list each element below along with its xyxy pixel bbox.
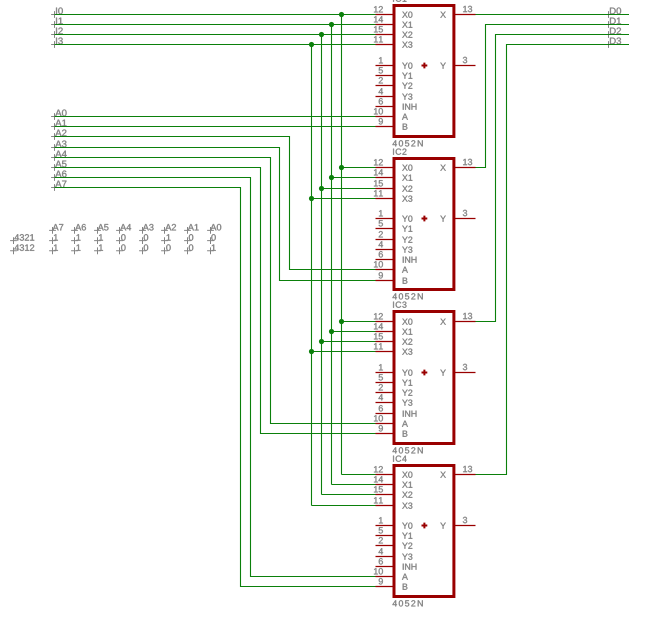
name label IC3 <box>393 302 406 308</box>
net D0 label <box>605 7 621 17</box>
pin 13 (X) of IC3 <box>440 313 475 325</box>
net A4 label <box>51 151 67 161</box>
wire I1 branch to IC4 <box>332 484 376 486</box>
junction I3 at IC2 <box>309 196 314 201</box>
net A7 label <box>51 181 66 191</box>
pin 13 (X) of IC1 <box>440 6 475 18</box>
junction I2 at IC2 <box>319 186 324 191</box>
pin 9 (B) of IC2 <box>376 272 408 284</box>
wire I3 branch to IC2 <box>312 198 376 200</box>
junction I2 at IC1 <box>319 32 324 37</box>
pin 6 (INH) of IC3 <box>376 405 417 417</box>
pin 6 (INH) of IC1 <box>376 98 417 110</box>
net I0 label <box>51 7 63 17</box>
pin 14 (X1) of IC4 <box>374 476 412 487</box>
wire I3 vertical bus <box>311 45 313 506</box>
table row 1 values <box>49 234 216 244</box>
value label 4052N of IC4 <box>393 600 423 606</box>
net D3 label <box>605 37 621 47</box>
pin 13 (X) of IC2 <box>440 159 475 171</box>
net A0 label <box>51 109 66 119</box>
IC IC3 4052N box <box>394 312 454 444</box>
wire A1 to IC1 <box>55 126 376 128</box>
pin 14 (X1) of IC1 <box>374 16 412 27</box>
table row label 4321 <box>10 234 34 244</box>
pin 15 (X2) of IC3 <box>374 333 412 344</box>
pin 2 (Y2) of IC3 <box>376 384 413 396</box>
wire I1 horizontal to IC1 <box>55 24 376 26</box>
net I2 label <box>51 27 63 37</box>
pin 2 (Y2) of IC2 <box>376 231 413 243</box>
wire I2 branch to IC4 <box>322 494 376 496</box>
pin 15 (X2) of IC4 <box>374 486 412 497</box>
wire D3 <box>476 45 630 475</box>
wire I2 branch to IC2 <box>322 188 376 190</box>
pin 1 (Y0) of IC3 <box>376 364 413 376</box>
junction I0 at IC2 <box>339 165 344 170</box>
pin 2 (Y2) of IC4 <box>376 537 413 549</box>
pin 5 (Y1) of IC4 <box>376 527 413 538</box>
pin 3 (Y) of IC1 <box>440 57 475 69</box>
wire A7 route to IC4 <box>55 188 376 587</box>
table row label 4312 <box>10 244 34 254</box>
origin cross of IC1 <box>422 63 428 69</box>
pin 3 (Y) of IC2 <box>440 210 475 222</box>
pin 9 (B) of IC1 <box>376 118 408 130</box>
pin 6 (INH) of IC2 <box>376 251 417 263</box>
name label IC2 <box>393 149 406 155</box>
pin 4 (Y3) of IC2 <box>376 241 413 253</box>
wire D0 <box>476 14 630 16</box>
net A5 label <box>51 161 66 171</box>
junction I1 at IC3 <box>329 329 334 334</box>
junction I2 at IC3 <box>319 339 324 344</box>
pin 10 (A) of IC3 <box>374 415 408 427</box>
IC IC4 4052N box <box>394 466 454 597</box>
pin 10 (A) of IC2 <box>374 261 408 273</box>
value label 4052N of IC3 <box>393 447 423 453</box>
pin 12 (X0) of IC4 <box>374 466 412 478</box>
pin 9 (B) of IC4 <box>376 578 408 590</box>
junction I0 at IC1 <box>339 12 344 17</box>
wire D1 <box>476 25 630 168</box>
net I1 label <box>51 18 63 28</box>
pin 15 (X2) of IC1 <box>374 26 412 37</box>
pin 12 (X0) of IC2 <box>374 159 412 171</box>
pin 11 (X3) of IC1 <box>374 36 412 48</box>
origin cross of IC2 <box>422 216 428 222</box>
net A2 label <box>51 129 66 139</box>
pin 5 (Y1) of IC2 <box>376 220 413 231</box>
pin 4 (Y3) of IC1 <box>376 88 413 100</box>
pin 15 (X2) of IC2 <box>374 180 412 191</box>
pin 3 (Y) of IC4 <box>440 517 475 529</box>
IC IC1 4052N box <box>394 6 454 137</box>
wire I2 horizontal to IC1 <box>55 34 376 36</box>
pin 14 (X1) of IC2 <box>374 169 412 180</box>
origin cross of IC3 <box>422 370 428 376</box>
wire I0 horizontal to IC1 <box>55 14 376 16</box>
net I3 label <box>51 37 63 47</box>
wire I1 vertical bus <box>331 25 333 485</box>
wire I1 branch to IC2 <box>332 177 376 179</box>
wire I2 branch to IC3 <box>322 341 376 343</box>
junction I1 at IC1 <box>329 22 334 27</box>
wire I3 horizontal to IC1 <box>55 44 376 46</box>
pin 1 (Y0) of IC4 <box>376 517 413 529</box>
pin 12 (X0) of IC1 <box>374 6 412 18</box>
origin cross of IC4 <box>422 523 428 529</box>
net D1 label <box>605 18 621 28</box>
IC IC2 4052N box <box>394 159 454 290</box>
wire A0 to IC1 <box>55 116 376 118</box>
pin 2 (Y2) of IC1 <box>376 77 413 89</box>
table row 2 values <box>49 244 216 254</box>
wire I3 branch to IC4 <box>312 505 376 507</box>
pin 5 (Y1) of IC1 <box>376 67 413 78</box>
pin 11 (X3) of IC2 <box>374 190 412 202</box>
wire I3 branch to IC3 <box>312 351 376 353</box>
pin 11 (X3) of IC3 <box>374 343 412 355</box>
net A6 label <box>51 170 66 180</box>
wire I0 branch to IC3 <box>342 321 376 323</box>
net A1 label <box>51 120 66 130</box>
pin 9 (B) of IC3 <box>376 425 408 437</box>
wire I0 branch to IC4 <box>342 474 376 476</box>
pin 10 (A) of IC4 <box>374 568 408 580</box>
name label IC1 <box>393 0 406 2</box>
pin 1 (Y0) of IC1 <box>376 57 413 69</box>
wire A4 route to IC3 <box>55 158 376 424</box>
wire A5 route to IC3 <box>55 168 376 434</box>
pin 4 (Y3) of IC3 <box>376 394 413 406</box>
pin 6 (INH) of IC4 <box>376 558 417 570</box>
wire I0 branch to IC2 <box>342 167 376 169</box>
wire I1 branch to IC3 <box>332 331 376 333</box>
pin 3 (Y) of IC3 <box>440 364 475 376</box>
wire D2 <box>476 35 630 322</box>
pin 11 (X3) of IC4 <box>374 497 412 509</box>
pin 12 (X0) of IC3 <box>374 313 412 325</box>
pin 10 (A) of IC1 <box>374 108 408 120</box>
wire A3 route to IC2 <box>55 148 376 281</box>
value label 4052N of IC2 <box>393 293 423 299</box>
net D2 label <box>605 27 621 37</box>
junction I0 at IC3 <box>339 319 344 324</box>
pin 4 (Y3) of IC4 <box>376 548 413 560</box>
wire I2 vertical bus <box>321 35 323 495</box>
pin 14 (X1) of IC3 <box>374 323 412 334</box>
pin 5 (Y1) of IC3 <box>376 374 413 385</box>
wire I0 vertical bus <box>341 15 343 475</box>
pin 1 (Y0) of IC2 <box>376 210 413 222</box>
wire A6 route to IC4 <box>55 178 376 577</box>
net A3 label <box>51 140 66 150</box>
table column headers A7..A0 <box>49 224 221 234</box>
junction I3 at IC1 <box>309 42 314 47</box>
wire A2 route to IC2 <box>55 137 376 270</box>
junction I3 at IC3 <box>309 349 314 354</box>
name label IC4 <box>393 456 407 462</box>
pin 13 (X) of IC4 <box>440 466 475 478</box>
junction I1 at IC2 <box>329 175 334 180</box>
value label 4052N of IC1 <box>393 140 423 146</box>
